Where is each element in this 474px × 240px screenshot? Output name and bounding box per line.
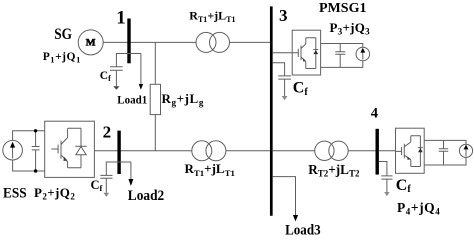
bus 2 <box>117 131 120 174</box>
load arrow Load1 <box>140 54 142 85</box>
wire: T2 to bus 4 <box>348 150 376 152</box>
svg-text:Rg+jLg: Rg+jLg <box>162 91 204 108</box>
load arrow Load3 <box>293 215 298 221</box>
wire: Rg branch top <box>154 42 156 84</box>
bus 4 <box>376 129 379 175</box>
wire: Load3 branch <box>273 177 296 215</box>
svg-text:ESS: ESS <box>3 186 27 202</box>
svg-text:Load3: Load3 <box>285 223 321 238</box>
capacitor Cf at bus 3 <box>278 76 291 96</box>
IGBT Q3 inside U3 <box>292 38 316 69</box>
resistor Rg+jLg <box>150 84 160 114</box>
diode D3 inside U3 <box>313 38 318 69</box>
wire: bus1 T-stub <box>116 54 140 67</box>
bus 1 <box>127 19 130 64</box>
ground arrow of Cf bus2 <box>104 193 110 197</box>
wire: U3 dc rails <box>321 44 363 68</box>
diode D4 inside U4 <box>418 136 423 167</box>
junction dot bottom <box>34 169 37 172</box>
ESS source circle <box>3 140 23 160</box>
junction dot top <box>34 129 37 132</box>
capacitor Cf at bus 4 <box>381 176 392 192</box>
wire: bus2 T-stub <box>106 162 131 175</box>
transformer T2 <box>315 141 334 160</box>
capacitor Cf at bus 2 <box>100 175 112 192</box>
capacitor dc-link U4 <box>439 140 448 165</box>
svg-text:P4+jQ4: P4+jQ4 <box>397 200 440 217</box>
transformer T1 bottom <box>192 141 212 161</box>
capacitor dc-link U3 <box>335 44 345 68</box>
svg-text:2: 2 <box>103 122 112 141</box>
svg-text:SG: SG <box>54 26 72 43</box>
wire: T1 bottom to bus 3 <box>226 150 270 152</box>
svg-text:4: 4 <box>371 106 378 122</box>
wire: bus 3 to T2 <box>273 150 315 152</box>
ground arrow of Cf bus1 <box>113 86 119 90</box>
transformer T1 top (two overlapping circles) <box>196 32 216 52</box>
svg-text:Load2: Load2 <box>128 188 164 204</box>
wire: Rg branch bottom <box>154 115 156 151</box>
source circle of PMSG1 <box>356 47 370 61</box>
wire: transformer T1 top to bus 3 <box>230 41 271 43</box>
wire: bus4 Cf stub <box>379 162 387 176</box>
capacitor Cf at bus 1 <box>110 67 123 86</box>
capacitor dc-link ESS <box>32 131 40 171</box>
svg-text:P1+jQ1: P1+jQ1 <box>43 51 81 65</box>
svg-text:PMSG1: PMSG1 <box>319 1 367 16</box>
wire: ESS dc rails <box>13 131 45 171</box>
svg-text:P2+jQ2: P2+jQ2 <box>34 185 75 202</box>
load arrow Load2 <box>130 162 132 179</box>
svg-text:M: M <box>86 39 96 49</box>
converter U3 (PMSG1 machine-side) box <box>292 30 320 75</box>
wire: SG to bus1 to transformer T1 top <box>103 41 196 43</box>
ground arrow of Cf bus3 <box>282 96 288 100</box>
converter U4 box <box>396 128 425 173</box>
bus 3 <box>270 6 273 215</box>
converter U2 (ESS) box <box>45 121 95 177</box>
wire: bus3 Cf stub <box>273 63 285 76</box>
wire: bus 3 to PMSG1 converter <box>273 52 293 54</box>
generator SG machine circle <box>78 30 103 55</box>
wire: bottom main ESS to T1 bottom <box>94 150 191 152</box>
ground arrow of Cf bus4 <box>384 192 389 196</box>
diode D2 inside U2 <box>75 128 86 168</box>
source circle U4 <box>459 144 472 157</box>
svg-text:P3+jQ3: P3+jQ3 <box>330 20 371 37</box>
svg-text:Load1: Load1 <box>117 94 147 106</box>
svg-text:1: 1 <box>116 7 126 28</box>
wire: U4 dc rails <box>424 140 466 165</box>
IGBT Q2 inside U2 <box>51 128 81 168</box>
wire: bus 4 to converter U4 <box>379 150 396 152</box>
svg-text:3: 3 <box>279 6 288 25</box>
IGBT Q4 inside U4 <box>396 136 421 167</box>
